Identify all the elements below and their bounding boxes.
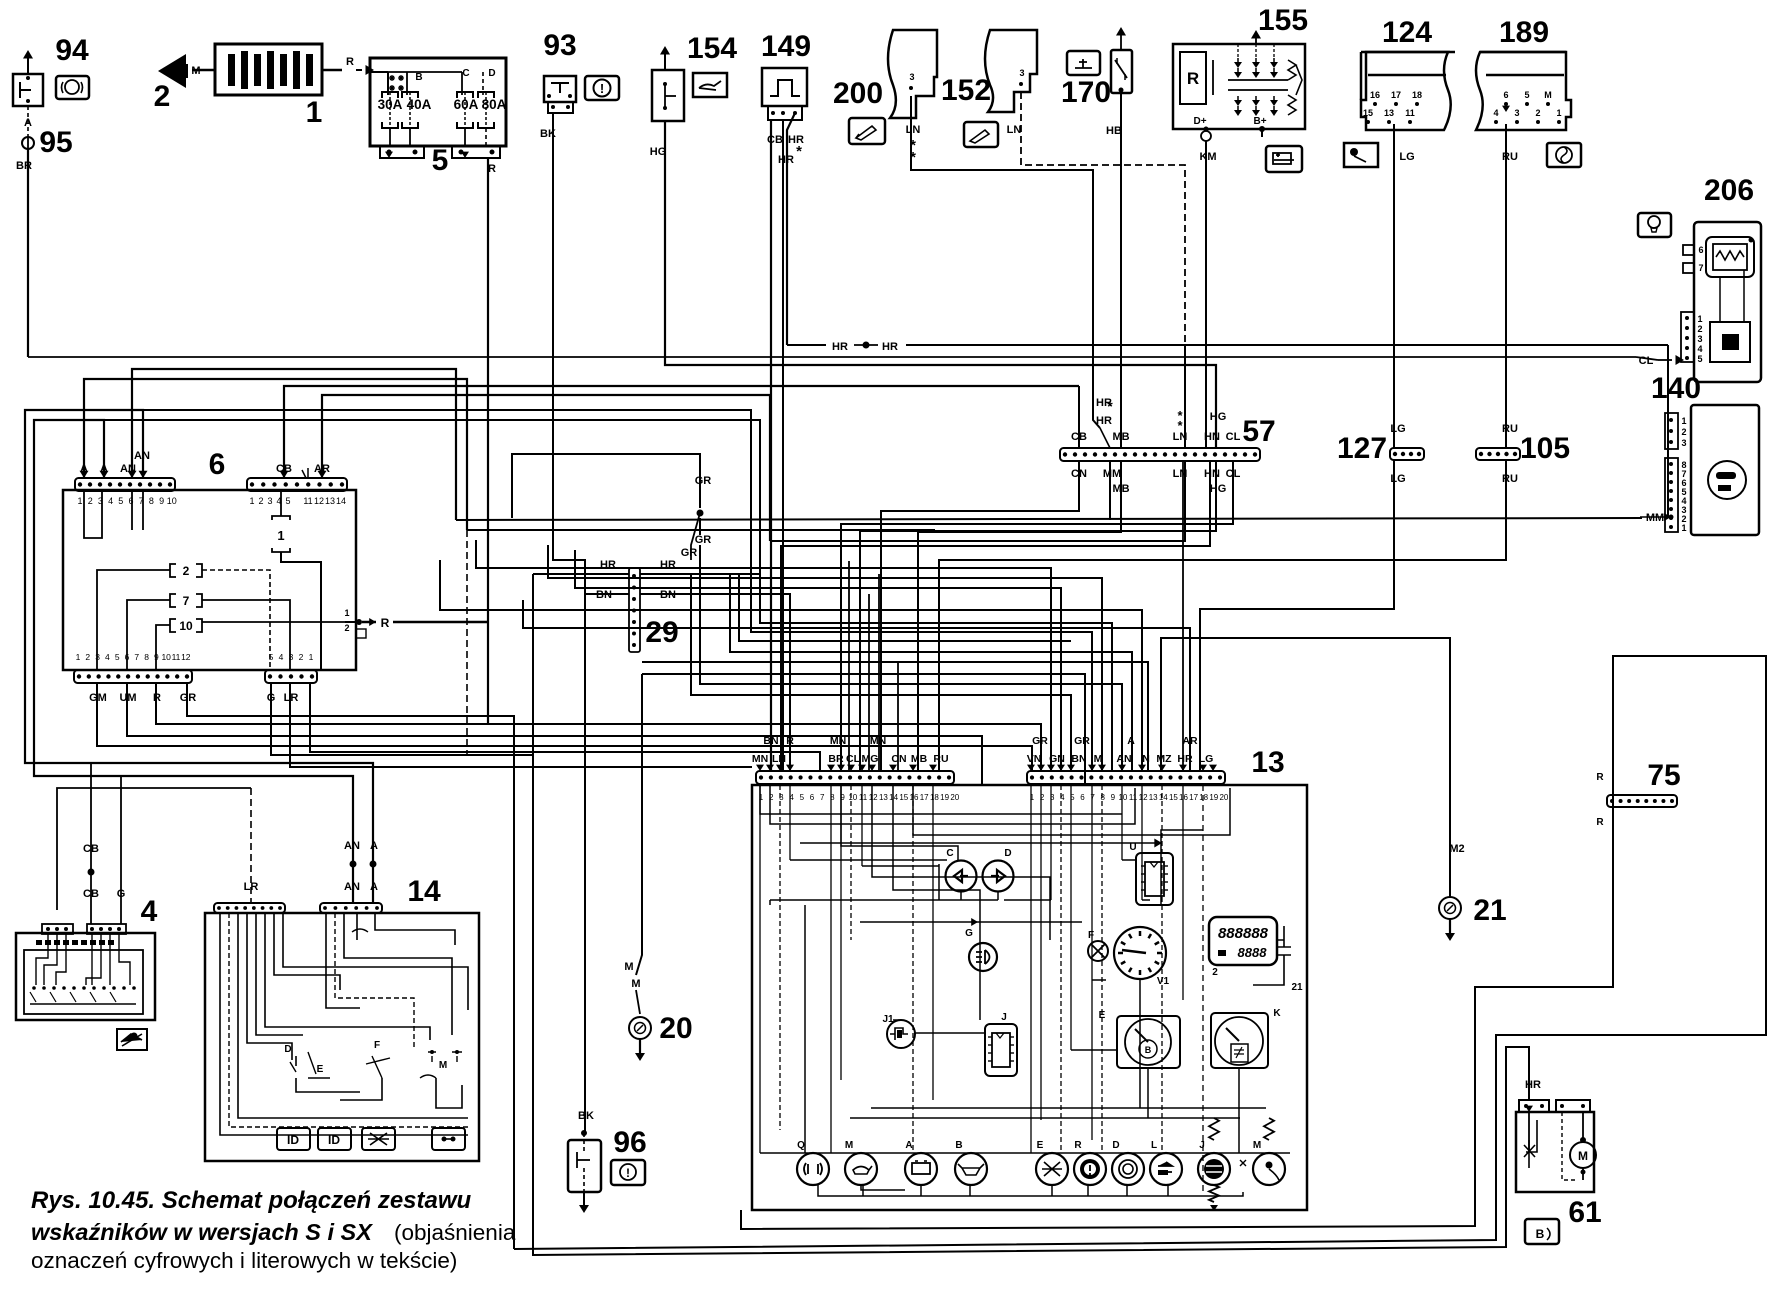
HR pin vertical (1182, 462, 1184, 771)
svg-text:M: M (624, 961, 633, 973)
svg-text:B: B (415, 72, 422, 83)
svg-text:B: B (955, 1140, 962, 1151)
svg-text:R: R (1187, 69, 1199, 88)
svg-text:7: 7 (1698, 263, 1703, 273)
svg-text:M2: M2 (1449, 843, 1464, 855)
svg-text:6: 6 (1503, 90, 1508, 100)
svg-text:MG: MG (862, 753, 879, 765)
svg-text:LR: LR (284, 692, 299, 704)
svg-text:6: 6 (1080, 793, 1085, 802)
svg-text:13: 13 (325, 496, 335, 506)
svg-text:3: 3 (1697, 334, 1702, 344)
svg-text:LN: LN (1007, 124, 1022, 136)
svg-text:CL: CL (1226, 431, 1241, 443)
wire RU from 105 down (939, 460, 1506, 771)
icon 61 (1525, 1219, 1559, 1244)
svg-text:10: 10 (179, 619, 193, 633)
svg-text:5: 5 (800, 793, 805, 802)
svg-text:R: R (786, 735, 794, 747)
wire BR from 95 to CL trunk (27, 149, 29, 357)
svg-text:A: A (905, 1140, 912, 1151)
svg-text:18: 18 (1412, 90, 1422, 100)
svg-text:A: A (1127, 735, 1135, 747)
svg-text:1: 1 (249, 496, 254, 506)
svg-text:M: M (1253, 1140, 1261, 1151)
svg-text:HN: HN (1204, 468, 1220, 480)
svg-text:MN: MN (830, 735, 846, 747)
svg-text:13: 13 (1384, 108, 1394, 118)
svg-text:AN: AN (344, 881, 360, 893)
svg-text:!: ! (626, 1166, 630, 1180)
svg-text:15: 15 (1169, 793, 1178, 802)
svg-text:R: R (346, 56, 354, 68)
wire LN from 200 (911, 96, 1093, 345)
svg-text:154: 154 (687, 32, 737, 65)
svg-text:R: R (1596, 772, 1604, 783)
wire LG from 124 to 127 (1393, 124, 1395, 448)
svg-text:152: 152 (941, 74, 991, 107)
wire AR from box6 (322, 395, 770, 541)
svg-text:M: M (1578, 1149, 1588, 1163)
svg-text:LG: LG (1390, 473, 1405, 485)
internal wiring box 4 (36, 934, 48, 985)
fan icon 189 (1547, 143, 1581, 167)
wires from 149 (770, 120, 772, 771)
svg-text:3: 3 (1514, 108, 1519, 118)
svg-text:200: 200 (833, 77, 883, 110)
svg-text:BK: BK (578, 1110, 594, 1122)
wire A pin1 (84, 379, 467, 530)
svg-text:17: 17 (1189, 793, 1198, 802)
light switch box 14 (205, 913, 479, 1161)
relay box 4 (16, 933, 155, 1020)
svg-text:D: D (488, 68, 495, 79)
wire LG from 127 down (1200, 460, 1394, 771)
resistor pack 1 (215, 44, 322, 95)
svg-text:60A: 60A (454, 97, 479, 112)
oil icon 154 (693, 73, 727, 97)
svg-text:LG: LG (1399, 151, 1414, 163)
wires above 57 (1078, 386, 1080, 448)
fuel sender 170 (1111, 50, 1132, 93)
svg-text:HR: HR (660, 559, 676, 571)
svg-text:V1: V1 (1157, 976, 1170, 987)
svg-text:3: 3 (1681, 438, 1686, 448)
svg-text:3: 3 (1019, 68, 1024, 78)
svg-text:E: E (317, 1064, 324, 1075)
svg-text:170: 170 (1061, 76, 1111, 109)
svg-text:3: 3 (909, 72, 914, 82)
svg-text:5: 5 (115, 652, 120, 662)
warning icon 93 (585, 76, 619, 100)
arrow mid trunk (800, 842, 1155, 844)
svg-text:M: M (1544, 90, 1552, 100)
svg-text:MB: MB (911, 753, 928, 765)
hanging pin feeds left bar (848, 561, 850, 771)
svg-text:HR: HR (1525, 1079, 1541, 1091)
icon 96 (611, 1160, 645, 1185)
svg-text:C: C (946, 848, 953, 859)
svg-text:HR: HR (600, 559, 616, 571)
svg-text:CL: CL (846, 753, 861, 765)
svg-text:ID: ID (328, 1133, 340, 1147)
svg-text:HG: HG (1210, 411, 1227, 423)
box13 internal horizontals (770, 899, 998, 901)
icon below 4 (117, 1029, 147, 1050)
svg-text:8: 8 (149, 496, 154, 506)
svg-text:MZ: MZ (1156, 753, 1172, 765)
icon 170 (1067, 51, 1100, 75)
internal wiring box 14 (220, 913, 468, 1135)
svg-text:5: 5 (432, 144, 449, 177)
svg-text:12: 12 (314, 496, 324, 506)
svg-text:155: 155 (1258, 4, 1308, 37)
box13 internal wires (759, 785, 761, 1153)
svg-text:10: 10 (167, 496, 177, 506)
svg-text:15: 15 (1363, 108, 1373, 118)
wire BK from 93 to 96 (553, 113, 585, 1133)
svg-text:40A: 40A (407, 97, 432, 112)
svg-text:LG: LG (1199, 753, 1214, 765)
svg-text:D: D (1112, 1140, 1119, 1151)
small x splice left of M lamp (1240, 1160, 1246, 1166)
svg-text:AN: AN (344, 840, 360, 852)
svg-text:7: 7 (183, 594, 190, 608)
svg-text:M: M (1094, 753, 1103, 765)
svg-text:7: 7 (1090, 793, 1095, 802)
washer icon 124 (1344, 143, 1378, 167)
svg-text:wskaźników w wersjach S i SX: wskaźników w wersjach S i SX (31, 1219, 373, 1245)
svg-text:29: 29 (645, 616, 678, 649)
svg-text:F: F (374, 1040, 380, 1051)
bottom trunk line C to 61 (533, 574, 1529, 1255)
svg-text:93: 93 (543, 29, 576, 62)
bulb icon 206 (1638, 213, 1671, 237)
svg-text:7: 7 (820, 793, 825, 802)
svg-text:RU: RU (1502, 423, 1518, 435)
trunk lines 57 to box 13 (881, 460, 1079, 771)
svg-text:M: M (631, 978, 640, 990)
svg-text:1: 1 (1556, 108, 1561, 118)
svg-text:2: 2 (1697, 324, 1702, 334)
wire HG from 154 (665, 121, 1216, 448)
svg-text:140: 140 (1651, 372, 1701, 405)
svg-text:2: 2 (258, 496, 263, 506)
svg-text:F: F (1088, 930, 1094, 941)
svg-text:BN: BN (1071, 753, 1086, 765)
svg-text:1: 1 (77, 496, 82, 506)
svg-text:4: 4 (105, 652, 110, 662)
svg-text:2: 2 (1535, 108, 1540, 118)
svg-text:5: 5 (1524, 90, 1529, 100)
svg-text:6: 6 (209, 448, 226, 481)
lamp glyphs (804, 1163, 822, 1175)
svg-text:LG: LG (1390, 423, 1405, 435)
svg-text:6: 6 (1698, 245, 1703, 255)
svg-text:Q: Q (797, 1140, 805, 1151)
svg-text:20: 20 (950, 793, 959, 802)
svg-text:GR: GR (695, 534, 712, 546)
battery icon 155 (1266, 146, 1302, 172)
svg-text:1: 1 (76, 652, 81, 662)
svg-text:MM: MM (1646, 512, 1664, 524)
svg-text:1: 1 (1681, 416, 1686, 426)
svg-text:57: 57 (1242, 415, 1275, 448)
svg-text:4: 4 (1697, 344, 1702, 354)
svg-text:14: 14 (1159, 793, 1168, 802)
svg-text:GR: GR (681, 547, 698, 559)
svg-text:*: * (796, 143, 802, 160)
svg-text:K: K (1273, 1008, 1281, 1019)
svg-text:12: 12 (869, 793, 878, 802)
svg-text:1: 1 (277, 528, 284, 543)
svg-text:MN: MN (870, 735, 886, 747)
svg-text:20: 20 (659, 1012, 692, 1045)
svg-text:GR: GR (1074, 735, 1090, 747)
svg-text:105: 105 (1520, 432, 1570, 465)
svg-text:5: 5 (118, 496, 123, 506)
svg-text:1: 1 (344, 608, 349, 618)
pen icon 152 (964, 122, 998, 147)
svg-text:GR: GR (180, 692, 197, 704)
svg-text:2: 2 (85, 652, 90, 662)
svg-text:2: 2 (88, 496, 93, 506)
svg-text:2: 2 (344, 623, 349, 633)
svg-text:!: ! (600, 81, 604, 96)
svg-text:16: 16 (1179, 793, 1188, 802)
svg-text:75: 75 (1647, 759, 1680, 792)
svg-text:9: 9 (159, 496, 164, 506)
svg-text:ID: ID (287, 1133, 299, 1147)
svg-text:AN: AN (1116, 753, 1131, 765)
svg-text:21: 21 (1291, 982, 1303, 993)
odometer display 2 (1209, 917, 1277, 965)
svg-text:11: 11 (1129, 793, 1138, 802)
icon row box 14 (277, 1128, 310, 1150)
svg-text:21: 21 (1473, 894, 1506, 927)
svg-text:16: 16 (910, 793, 919, 802)
svg-text:61: 61 (1568, 1196, 1601, 1229)
svg-text:KM: KM (1199, 151, 1216, 163)
svg-text:B+: B+ (1253, 116, 1266, 127)
svg-text:CN: CN (891, 753, 906, 765)
wire R from 5 down (487, 158, 489, 724)
svg-text:1: 1 (309, 652, 314, 662)
svg-text:20: 20 (1219, 793, 1228, 802)
long trunk y520 (456, 518, 1642, 520)
svg-text:B: B (1536, 1227, 1545, 1241)
svg-text:9: 9 (1111, 793, 1116, 802)
wire CB from box6 to trunk (284, 386, 1079, 478)
svg-text:B: B (1145, 1045, 1152, 1055)
svg-text:R: R (381, 616, 390, 630)
svg-text:10: 10 (848, 793, 857, 802)
fusebox 5 (370, 58, 506, 146)
svg-text:J: J (1001, 1012, 1007, 1023)
svg-text:RU: RU (1502, 473, 1518, 485)
svg-text:12: 12 (1139, 793, 1148, 802)
svg-text:D+: D+ (1193, 116, 1206, 127)
svg-text:13: 13 (1251, 746, 1284, 779)
svg-text:15: 15 (899, 793, 908, 802)
svg-text:L: L (1151, 1140, 1157, 1151)
indicator icon 94 (56, 76, 89, 99)
svg-text:MN: MN (752, 753, 768, 765)
svg-text:GR: GR (695, 475, 712, 487)
HR trunk with splice (787, 344, 826, 346)
svg-text:HB: HB (1106, 125, 1122, 137)
svg-text:8888: 8888 (1238, 945, 1268, 960)
svg-text:2: 2 (1212, 967, 1218, 978)
svg-text:LN: LN (906, 124, 921, 136)
svg-text:5: 5 (285, 496, 290, 506)
svg-text:888888: 888888 (1218, 925, 1269, 942)
svg-text:1: 1 (306, 96, 323, 129)
svg-text:Rys. 10.45. Schemat połączeń z: Rys. 10.45. Schemat połączeń zestawu (31, 1187, 472, 1214)
wires from box6 bottom (97, 683, 1032, 771)
svg-text:6: 6 (810, 793, 815, 802)
svg-text:VN: VN (1027, 753, 1042, 765)
svg-text:1: 1 (1681, 523, 1686, 533)
svg-text:2: 2 (299, 652, 304, 662)
pen icon 200 (849, 118, 885, 144)
staircase from HR splice verticals (104, 420, 1112, 771)
svg-text:CB: CB (767, 134, 783, 146)
wire A pin3 / left loop (34, 420, 353, 903)
svg-text:7: 7 (134, 652, 139, 662)
CL trunk line (28, 356, 1636, 358)
AR wire (523, 600, 1190, 771)
svg-text:A: A (370, 840, 378, 852)
svg-text:4: 4 (141, 895, 158, 928)
wire AN pin6 (132, 369, 456, 520)
svg-text:D: D (1004, 848, 1011, 859)
svg-text:GN: GN (1049, 753, 1065, 765)
wire LN from 152 (1021, 92, 1185, 345)
svg-text:RU: RU (933, 753, 948, 765)
svg-text:A: A (370, 881, 378, 893)
svg-text:R: R (1074, 1140, 1082, 1151)
svg-text:(objaśnienia: (objaśnienia (394, 1220, 516, 1245)
svg-text:16: 16 (1370, 90, 1380, 100)
svg-text:4: 4 (279, 652, 284, 662)
svg-text:4: 4 (1493, 108, 1498, 118)
svg-text:4: 4 (108, 496, 113, 506)
svg-text:*: * (1107, 398, 1113, 414)
wire KM from 155 (1205, 141, 1207, 448)
svg-text:5: 5 (1697, 354, 1702, 364)
svg-text:HG: HG (650, 146, 667, 158)
svg-text:HR: HR (882, 341, 898, 353)
box13 internal L-wires (760, 785, 1122, 814)
svg-text:189: 189 (1499, 16, 1549, 49)
svg-text:30A: 30A (378, 97, 403, 112)
svg-text:BR: BR (828, 753, 844, 765)
svg-text:11: 11 (859, 793, 868, 802)
svg-text:MM: MM (1103, 468, 1121, 480)
svg-text:10: 10 (1118, 793, 1127, 802)
svg-text:14: 14 (889, 793, 898, 802)
svg-text:2: 2 (183, 564, 190, 578)
svg-text:1: 1 (1697, 314, 1702, 324)
svg-text:AR: AR (1182, 735, 1198, 747)
wire AN pin7 (25, 410, 373, 903)
svg-text:N: N (1142, 753, 1150, 765)
svg-text:GR: GR (1032, 735, 1048, 747)
svg-text:3: 3 (267, 496, 272, 506)
svg-text:11: 11 (172, 652, 181, 662)
svg-text:127: 127 (1337, 432, 1387, 465)
svg-text:124: 124 (1382, 16, 1432, 49)
wire RU from 189 to 105 (1505, 124, 1507, 448)
svg-text:2: 2 (154, 80, 171, 113)
svg-text:8: 8 (144, 652, 149, 662)
svg-text:80A: 80A (482, 97, 507, 112)
extra bundle lines (476, 540, 1051, 771)
svg-text:8: 8 (1100, 793, 1105, 802)
svg-text:J: J (1199, 1140, 1205, 1151)
svg-text:12: 12 (181, 652, 191, 662)
horn 2 (158, 54, 186, 88)
relay 1 inside box 6 (272, 516, 290, 552)
svg-text:19: 19 (1209, 793, 1218, 802)
svg-text:18: 18 (930, 793, 939, 802)
svg-text:19: 19 (940, 793, 949, 802)
right loop wires (514, 656, 1766, 1249)
trunk y530 (467, 529, 935, 531)
svg-text:11: 11 (303, 496, 312, 506)
svg-text:206: 206 (1704, 174, 1754, 207)
svg-text:BN: BN (763, 735, 778, 747)
svg-text:R: R (488, 163, 496, 175)
svg-text:R: R (1596, 817, 1604, 828)
svg-text:11: 11 (1405, 108, 1415, 118)
svg-text:13: 13 (1149, 793, 1158, 802)
svg-text:18: 18 (1199, 793, 1208, 802)
svg-text:17: 17 (1391, 90, 1401, 100)
svg-text:HR: HR (1177, 753, 1193, 765)
svg-text:96: 96 (613, 1126, 646, 1159)
switch 94 (13, 74, 43, 106)
svg-text:14: 14 (336, 496, 346, 506)
svg-text:M: M (845, 1140, 853, 1151)
svg-text:13: 13 (879, 793, 888, 802)
svg-text:R: R (153, 692, 161, 704)
svg-text:HR: HR (832, 341, 848, 353)
svg-text:E: E (1037, 1140, 1044, 1151)
instrument connector box 6 (63, 490, 356, 670)
svg-text:149: 149 (761, 30, 811, 63)
svg-text:HG: HG (1210, 483, 1227, 495)
wire R from 1 to 5 (322, 69, 342, 72)
instrument cluster box 13 (752, 785, 1307, 1210)
wire B+ from 155 (1261, 129, 1263, 137)
svg-text:G: G (965, 928, 973, 939)
svg-text:M: M (439, 1060, 447, 1071)
cap symbol 21 ref (1277, 926, 1291, 968)
svg-text:95: 95 (39, 126, 72, 159)
speedometer V1 (1114, 927, 1166, 979)
MZ wire to 21 (1161, 638, 1450, 897)
svg-text:oznaczeń cyfrowych i literowyc: oznaczeń cyfrowych i literowych w tekści… (31, 1248, 457, 1273)
svg-text:17: 17 (920, 793, 929, 802)
svg-text:D: D (284, 1044, 291, 1055)
svg-text:2: 2 (1681, 427, 1686, 437)
svg-text:BR: BR (16, 160, 32, 172)
svg-text:RU: RU (1502, 151, 1518, 163)
svg-text:LN: LN (772, 753, 786, 765)
svg-text:94: 94 (55, 34, 89, 67)
